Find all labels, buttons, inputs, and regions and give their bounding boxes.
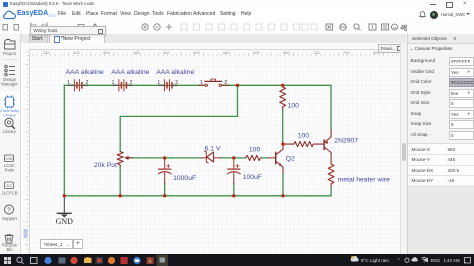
svg-text:1:42 AM: 1:42 AM (444, 258, 460, 263)
svg-text:metal heater wire: metal heater wire (338, 177, 390, 184)
transistor Q2 NPN (276, 144, 283, 172)
wire R to Q2 base (261, 157, 268, 159)
svg-text:100uF: 100uF (243, 174, 262, 181)
svg-text:1: 1 (200, 80, 203, 86)
wire Q2 emitter to rail (282, 172, 284, 196)
sheet tab (40, 239, 73, 249)
top ruler (23, 43, 400, 50)
value labels (66, 69, 390, 184)
svg-text:2N2907: 2N2907 (334, 137, 358, 144)
resistor R5 metal heater wire (328, 164, 334, 187)
bell (419, 11, 426, 18)
transistor Q1 2N2907 PNP (324, 129, 331, 164)
capacitor C2 100uF (227, 158, 240, 184)
wire junction to R base Q2 (234, 157, 246, 159)
wire left rail (63, 85, 65, 196)
potentiometer RV1 20k (117, 152, 133, 167)
wire 100uF bottom to rail (233, 183, 235, 196)
switch S1 (198, 79, 229, 87)
wire from switch junction down and left to pot top (120, 85, 237, 151)
resistor R2 100 (Q2 base) (246, 155, 262, 160)
left sidebar (0, 34, 21, 254)
svg-text:1: 1 (67, 80, 70, 86)
svg-text:1: 1 (157, 80, 160, 86)
wire top rail (64, 84, 205, 86)
wire wiper row (126, 157, 202, 159)
svg-text:GND: GND (56, 217, 74, 226)
svg-text:2: 2 (175, 80, 178, 86)
svg-text:1: 1 (112, 80, 115, 86)
taskbar (0, 254, 474, 266)
title bar (0, 0, 474, 9)
svg-text:2: 2 (86, 80, 89, 86)
canvas v-scrollbar (400, 43, 408, 254)
svg-text:⌃: ⌃ (397, 258, 401, 264)
svg-text:AAA alkaline: AAA alkaline (156, 69, 194, 76)
wire pot bottom to rail (119, 166, 121, 196)
menu bar (0, 8, 474, 21)
svg-text:2: 2 (224, 80, 227, 86)
wire bottom rail (64, 195, 331, 197)
capacitor C1 1000uF (158, 158, 171, 184)
svg-text:8°C Light rain: 8°C Light rain (361, 258, 389, 263)
resistor R4 100 (2N2907 base) (283, 142, 324, 147)
EasyEDA logo (3, 10, 16, 20)
wire heater to rail (330, 187, 332, 196)
zener diode D1 6.1V (202, 151, 222, 163)
resistor R3 100 vertical (top right) (280, 85, 286, 109)
svg-text:1000uF: 1000uF (173, 175, 196, 182)
svg-text:20k Pot: 20k Pot (94, 162, 117, 169)
svg-text:AAA alkaline: AAA alkaline (111, 69, 149, 76)
wire stub to Q2 base (268, 157, 275, 159)
svg-text:100: 100 (298, 132, 310, 139)
pin numbers (67, 80, 227, 86)
svg-text:Q2: Q2 (286, 155, 295, 162)
svg-text:2: 2 (130, 80, 133, 86)
canvas (23, 43, 400, 254)
junction dots (63, 84, 285, 198)
right panel (407, 34, 474, 254)
wire 1000uF bottom to rail (164, 183, 166, 196)
toolbar (0, 21, 474, 35)
wiring tools floating panel (30, 26, 106, 36)
svg-text:100: 100 (249, 146, 261, 153)
wire right vertical to 2N2907 emitter (330, 85, 332, 129)
tab bar (20, 34, 406, 44)
wire zener to junction (221, 157, 234, 159)
svg-text:ENG: ENG (431, 258, 441, 263)
ground symbol (57, 196, 71, 218)
battery BT3 (158, 84, 177, 86)
left gutter (21, 43, 23, 254)
left ruler (23, 49, 30, 254)
battery BT2 (113, 84, 132, 86)
svg-text:AAA alkaline: AAA alkaline (66, 69, 104, 76)
wire vertical resistor to Q2 collector node (282, 109, 284, 144)
battery BT1 (68, 84, 87, 86)
svg-text:100: 100 (288, 103, 300, 110)
drawing tools floating panel (378, 44, 404, 53)
svg-text:6.1 V: 6.1 V (205, 146, 221, 153)
